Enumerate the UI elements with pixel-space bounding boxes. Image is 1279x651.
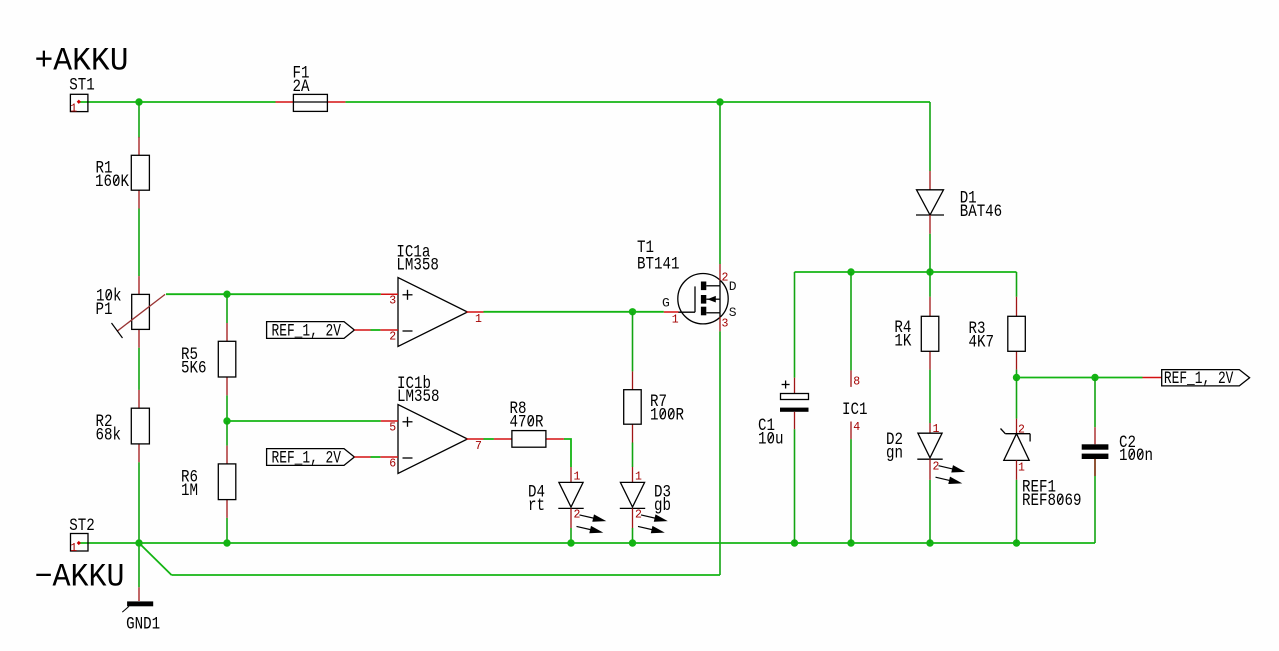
wire R3 top bbox=[1016, 272, 1018, 297]
junction REF row at C2 bbox=[1091, 374, 1098, 381]
wire R3 bottom bbox=[1016, 370, 1018, 378]
wire GND drop bbox=[138, 543, 140, 587]
wire R5 top bbox=[226, 294, 228, 323]
junction bottom rail at REF1 bbox=[1013, 539, 1020, 546]
slashed zero marks bbox=[107, 176, 1143, 503]
diode D1 bbox=[916, 171, 1002, 234]
resistor R5 bbox=[181, 323, 236, 395]
wire R1 top bbox=[138, 102, 140, 138]
junction bottom rail at IC1 bbox=[847, 539, 854, 546]
svg-text:1: 1 bbox=[70, 542, 77, 555]
label flag REF_1 lower bbox=[267, 449, 371, 469]
wire wiper row bbox=[166, 293, 381, 295]
wire C1 drop bbox=[794, 272, 796, 378]
junction bottom rail at C1 bbox=[791, 539, 798, 546]
svg-text:gn: gn bbox=[886, 443, 903, 463]
wire R2 to bottom rail bbox=[138, 462, 140, 543]
svg-text:1: 1 bbox=[1018, 462, 1025, 475]
svg-text:2: 2 bbox=[722, 271, 729, 284]
wire C1 bottom bbox=[794, 429, 796, 543]
svg-text:1: 1 bbox=[635, 470, 642, 483]
wire R5 bottom bbox=[226, 395, 228, 421]
svg-text:1: 1 bbox=[933, 423, 940, 436]
wire D3 bottom bbox=[632, 528, 634, 543]
svg-text:gb: gb bbox=[654, 496, 671, 516]
label flag REF_1 right bbox=[1143, 369, 1250, 389]
svg-text:470R: 470R bbox=[510, 412, 544, 432]
LED D4 bbox=[528, 467, 607, 536]
wire R8 to D4 corner bbox=[564, 439, 571, 467]
wire T1 drain up bbox=[719, 102, 721, 264]
svg-text:REF_1, 2V: REF_1, 2V bbox=[272, 322, 342, 342]
junction bottom rail at D3 bbox=[629, 539, 636, 546]
op-amp IC1a bbox=[380, 242, 483, 346]
svg-text:REF8069: REF8069 bbox=[1022, 491, 1082, 511]
svg-text:REF_1, 2V: REF_1, 2V bbox=[1164, 369, 1234, 389]
wire C2 top bbox=[1094, 378, 1096, 428]
svg-text:BT141: BT141 bbox=[637, 254, 680, 274]
svg-text:5K6: 5K6 bbox=[181, 358, 207, 378]
svg-text:S: S bbox=[729, 305, 737, 320]
junction bottom rail at R6 bbox=[223, 539, 230, 546]
wire IC1b out link bbox=[484, 438, 494, 440]
svg-text:8: 8 bbox=[853, 376, 860, 389]
svg-text:2A: 2A bbox=[293, 77, 310, 97]
wire flag1 link bbox=[371, 329, 381, 331]
wire IC1 pin4 down bbox=[850, 439, 852, 543]
junction pin5 row at R6 bbox=[223, 417, 230, 424]
wire R4 to D2 bbox=[929, 370, 931, 423]
wire REF row bbox=[1017, 377, 1143, 379]
connector ST2 bbox=[69, 516, 95, 555]
svg-text:LM358: LM358 bbox=[396, 256, 439, 276]
op-amp IC1b bbox=[380, 374, 483, 474]
wire pin5 row bbox=[227, 420, 381, 422]
junction top rail at R1 bbox=[135, 98, 142, 105]
svg-text:6: 6 bbox=[389, 457, 396, 470]
IC1 power pins bbox=[842, 370, 868, 439]
junction bottom rail at R2 bbox=[135, 539, 142, 546]
wire IC1 pin8 drop bbox=[850, 272, 852, 370]
junction mid rail at D1 bbox=[926, 268, 933, 275]
svg-text:68k: 68k bbox=[96, 425, 122, 445]
svg-text:10u: 10u bbox=[758, 429, 784, 449]
resistor R3 bbox=[969, 297, 1026, 370]
svg-text:100R: 100R bbox=[650, 405, 684, 425]
wire IC1a out to gate bbox=[484, 311, 664, 313]
svg-text:3: 3 bbox=[389, 295, 396, 308]
junction top rail at T1 drain bbox=[716, 98, 723, 105]
svg-text:2: 2 bbox=[574, 509, 581, 522]
svg-text:160K: 160K bbox=[95, 172, 129, 192]
junction mid rail at IC1 bbox=[847, 268, 854, 275]
junction bottom rail at D2 bbox=[926, 539, 933, 546]
label +AKKU bbox=[35, 43, 129, 80]
svg-text:1: 1 bbox=[475, 313, 482, 326]
wire P1 to R2 bbox=[138, 348, 140, 390]
wire D1 top drop bbox=[929, 102, 931, 171]
junction wiper row at R5 bbox=[223, 291, 230, 298]
svg-text:2: 2 bbox=[635, 509, 642, 522]
resistor R6 bbox=[181, 446, 236, 518]
connector ST1 bbox=[69, 76, 95, 116]
svg-text:IC1: IC1 bbox=[842, 400, 868, 420]
svg-text:2: 2 bbox=[1018, 424, 1025, 437]
svg-text:1: 1 bbox=[672, 314, 679, 327]
fuse F1 bbox=[276, 64, 346, 112]
wire D1 to mid rail bbox=[929, 234, 931, 272]
svg-text:LM358: LM358 bbox=[397, 387, 440, 407]
transistor T1 bbox=[637, 238, 737, 331]
wire R1 to P1 bbox=[138, 209, 140, 277]
junction out row at R7 bbox=[629, 308, 636, 315]
svg-text:2: 2 bbox=[933, 461, 940, 474]
wire bottom rail bbox=[80, 542, 1095, 544]
svg-text:P1: P1 bbox=[96, 300, 113, 320]
resistor R1 bbox=[95, 137, 149, 209]
wire top rail right bbox=[345, 101, 930, 103]
svg-text:5: 5 bbox=[389, 422, 396, 435]
wire R6 bottom bbox=[226, 518, 228, 543]
resistor R7 bbox=[624, 371, 685, 442]
svg-text:ST2: ST2 bbox=[69, 516, 95, 536]
svg-text:GND1: GND1 bbox=[126, 615, 160, 635]
svg-text:BAT46: BAT46 bbox=[960, 202, 1003, 222]
svg-text:−AKKU: −AKKU bbox=[35, 559, 125, 596]
wire R3 to REF1 bbox=[1016, 378, 1018, 419]
svg-text:1: 1 bbox=[574, 470, 581, 483]
capacitor C2 bbox=[1082, 427, 1153, 476]
svg-text:D: D bbox=[729, 279, 737, 294]
svg-text:REF_1, 2V: REF_1, 2V bbox=[272, 449, 342, 469]
wire flag2 link bbox=[371, 456, 381, 458]
svg-text:2: 2 bbox=[389, 330, 396, 343]
wire REF1 bottom bbox=[1016, 480, 1018, 543]
svg-text:G: G bbox=[662, 296, 670, 311]
LED D2 bbox=[886, 423, 966, 487]
capacitor C1 bbox=[758, 378, 809, 450]
label flag REF_1 upper bbox=[267, 322, 371, 342]
junction bottom rail at D4 bbox=[567, 539, 574, 546]
wire D4 bottom bbox=[570, 528, 572, 543]
svg-text:4K7: 4K7 bbox=[969, 332, 995, 352]
svg-text:1: 1 bbox=[70, 102, 77, 115]
wire R6 top bbox=[226, 421, 228, 446]
junction REF row at R3 bbox=[1013, 374, 1020, 381]
svg-text:+AKKU: +AKKU bbox=[35, 43, 129, 80]
wire C2 bottom bbox=[1094, 459, 1096, 543]
wire sense horizontal bbox=[172, 574, 721, 576]
reference diode REF1 bbox=[1001, 419, 1082, 511]
ground GND1 bbox=[122, 587, 160, 634]
resistor R4 bbox=[894, 297, 938, 370]
svg-text:rt: rt bbox=[528, 496, 545, 516]
wire R7 top bbox=[632, 312, 634, 372]
potentiometer P1 bbox=[96, 276, 166, 348]
LED D3 bbox=[620, 467, 671, 536]
wire D2 bottom bbox=[929, 480, 931, 543]
label -AKKU bbox=[35, 559, 125, 596]
svg-text:7: 7 bbox=[475, 440, 482, 453]
wire mid rail 272 bbox=[795, 271, 1017, 273]
svg-text:1K: 1K bbox=[894, 331, 911, 351]
wire R7 to D3 bbox=[632, 443, 634, 468]
svg-text:3: 3 bbox=[722, 318, 729, 331]
svg-text:4: 4 bbox=[853, 421, 860, 434]
resistor R8 bbox=[494, 399, 564, 447]
wire R4 top bbox=[929, 272, 931, 297]
svg-text:1M: 1M bbox=[181, 481, 198, 501]
svg-text:100n: 100n bbox=[1119, 446, 1153, 466]
wire T1 source down bbox=[719, 331, 721, 575]
wire top rail left bbox=[80, 101, 276, 103]
resistor R2 bbox=[96, 390, 150, 462]
wire sense diagonal bbox=[139, 543, 172, 575]
